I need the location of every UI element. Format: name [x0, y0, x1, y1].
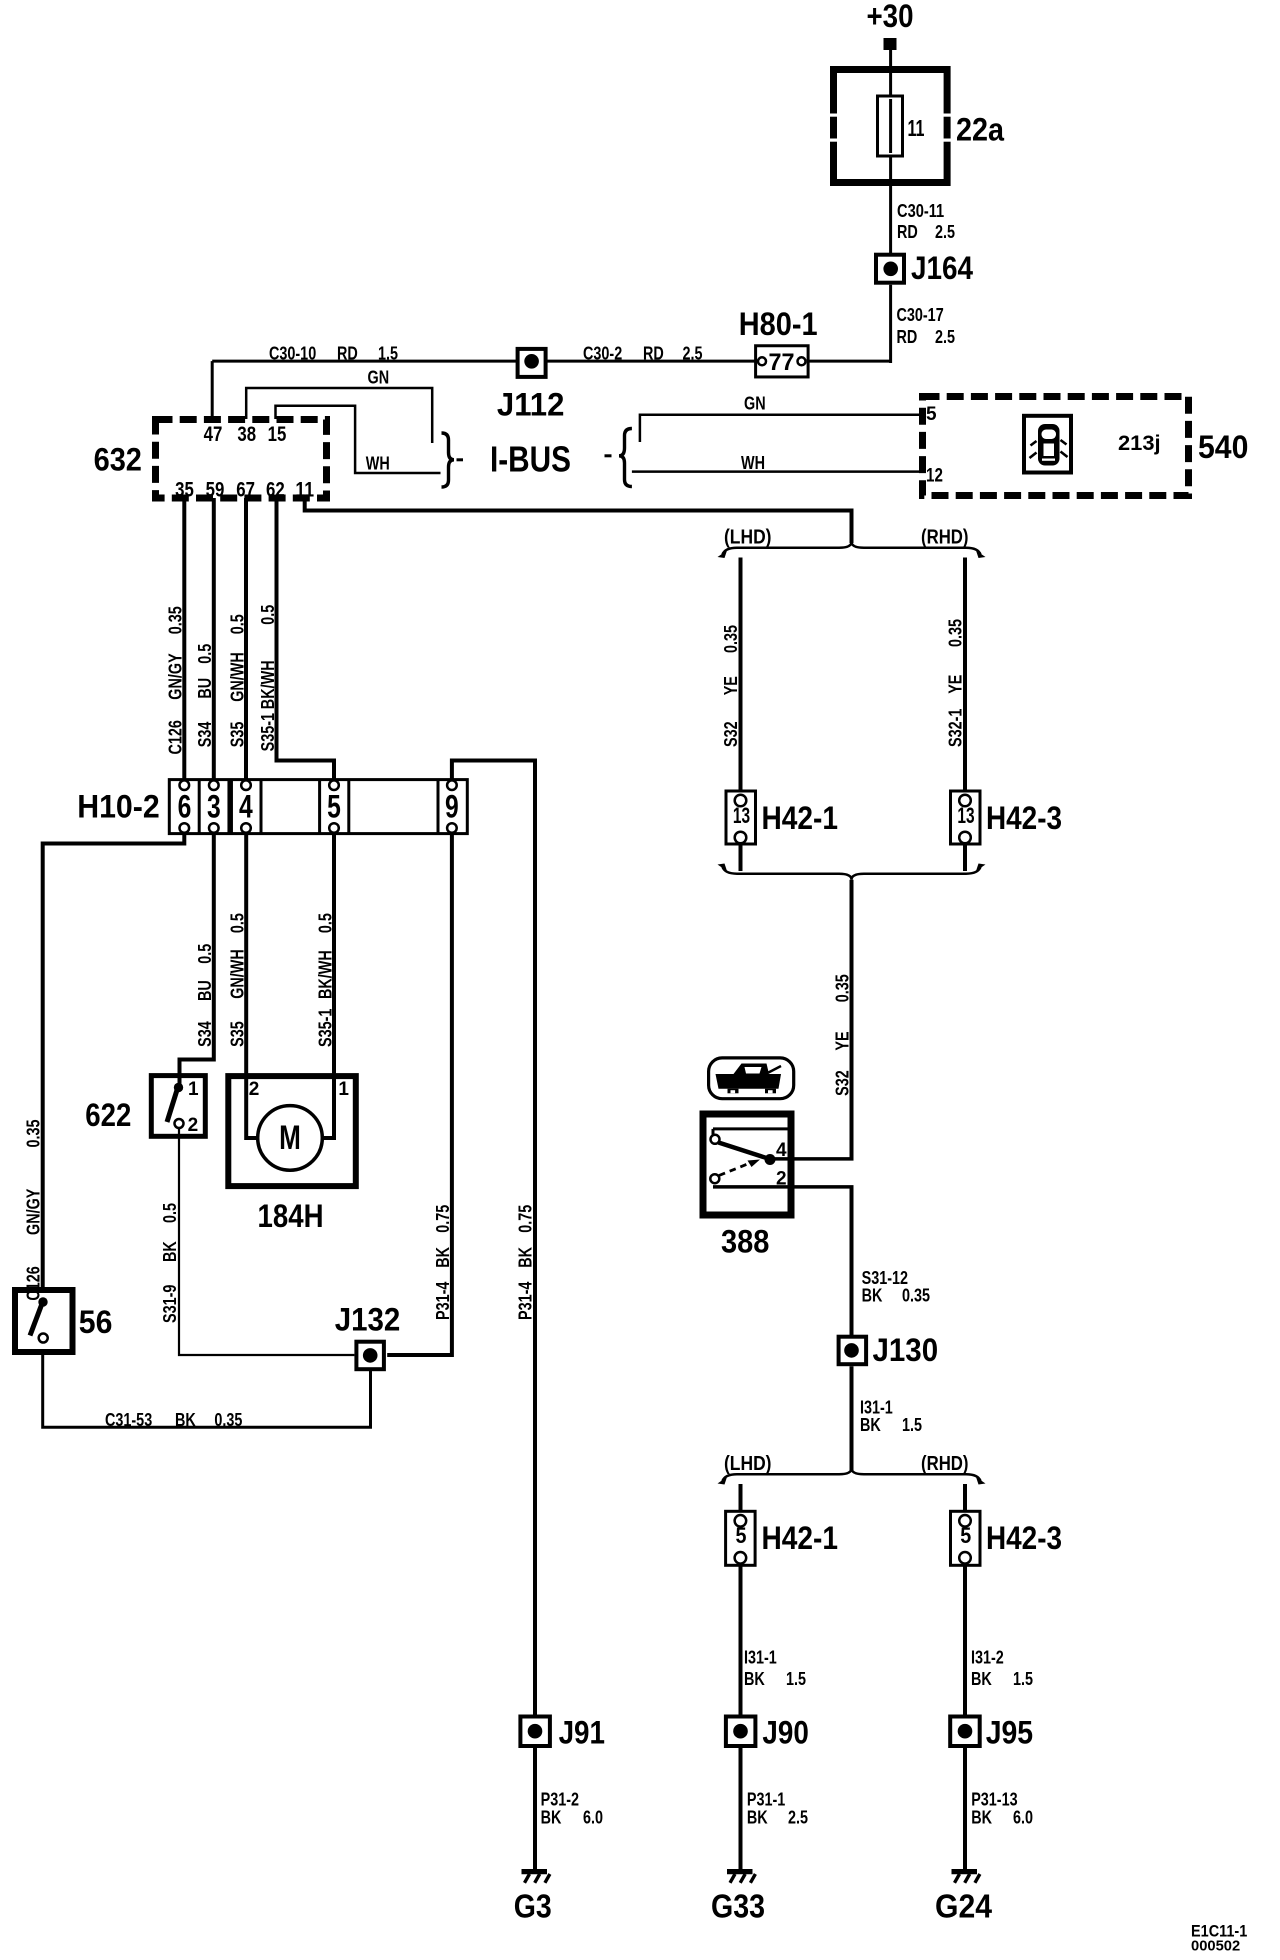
svg-text:9: 9	[445, 789, 459, 825]
svg-text:6.0: 6.0	[1013, 1808, 1033, 1828]
svg-text:I31-2: I31-2	[971, 1648, 1004, 1668]
wire J95 to ground G24	[963, 1748, 967, 1869]
ground symbol G3	[522, 1872, 550, 1883]
svg-text:BK: BK	[541, 1808, 562, 1828]
svg-text:H42-1: H42-1	[762, 1520, 839, 1556]
svg-text:P31-4: P31-4	[516, 1282, 536, 1320]
svg-text:632: 632	[94, 442, 142, 478]
wire RHD to H42-3 pin 13	[963, 558, 967, 793]
junction J91	[520, 1717, 550, 1747]
svg-text:RD: RD	[337, 344, 358, 364]
wire H10-2 pin 5 to motor pin 1	[321, 834, 334, 1138]
svg-text:213j: 213j	[1118, 432, 1161, 455]
svg-text:P31-4: P31-4	[433, 1282, 453, 1320]
switch 388 common dot pin 4	[765, 1154, 776, 1165]
wire label S31-9 BK 0.5	[160, 1203, 180, 1323]
wire H10-2 pin 9 to J91 long run	[452, 761, 535, 1716]
wire pin 47 stub	[211, 361, 214, 419]
svg-text:5: 5	[960, 1523, 971, 1548]
svg-text:C126: C126	[166, 720, 186, 754]
svg-text:6: 6	[178, 789, 192, 825]
wire label C126 GN/GY 0.35 upper	[166, 606, 186, 754]
svg-text:YE: YE	[721, 676, 741, 695]
svg-text:BK: BK	[747, 1808, 768, 1828]
svg-text:12: 12	[926, 466, 943, 487]
svg-text:YE: YE	[833, 1031, 853, 1050]
svg-text:388: 388	[721, 1224, 769, 1260]
svg-text:13: 13	[957, 803, 974, 828]
svg-text:0.35: 0.35	[721, 625, 741, 653]
junction J112	[518, 349, 546, 377]
wire through fuse box	[889, 67, 892, 186]
wire C30-10 / C30-2 horizontal run	[212, 360, 755, 363]
svg-text:BK: BK	[971, 1808, 992, 1828]
switch 388 internal top line	[713, 1129, 788, 1135]
wire label P31-4 BK 0.75 at J91 run	[516, 1205, 536, 1320]
wire label S35 GN/WH 0.5 lower	[227, 913, 247, 1047]
wire LHD to H42-1 pin 5	[739, 1484, 743, 1512]
svg-text:I-BUS: I-BUS	[490, 439, 571, 480]
svg-text:0.5: 0.5	[315, 913, 335, 933]
svg-text:(LHD): (LHD)	[724, 1453, 772, 1475]
svg-text:BK: BK	[160, 1241, 180, 1262]
svg-text:G3: G3	[514, 1888, 552, 1925]
wire label S35-1 BK/WH 0.5 lower	[315, 913, 335, 1047]
svg-text:GN: GN	[744, 394, 766, 414]
svg-text:0.75: 0.75	[516, 1205, 536, 1233]
svg-text:BK/WH: BK/WH	[315, 950, 335, 999]
junction J130	[839, 1337, 867, 1365]
wire below H42-3	[963, 844, 967, 871]
svg-text:G33: G33	[711, 1888, 765, 1925]
switch 56 contact dot	[38, 1297, 47, 1306]
svg-text:2.5: 2.5	[935, 222, 955, 242]
svg-text:0.75: 0.75	[433, 1205, 453, 1233]
svg-text:BK: BK	[971, 1669, 992, 1689]
wire 632 pin 59 to H10-2 pin 3	[212, 498, 216, 780]
wire LHD to H42-1 pin 13	[739, 558, 743, 793]
svg-text:0.5: 0.5	[258, 605, 278, 625]
svg-text:2: 2	[188, 1115, 199, 1136]
svg-text:S31-9: S31-9	[160, 1285, 180, 1323]
svg-text:S32-1: S32-1	[946, 709, 966, 747]
wire label S35 GN/WH 0.5 upper	[227, 614, 247, 747]
svg-text:C31-53: C31-53	[105, 1410, 152, 1430]
svg-text:0.35: 0.35	[946, 619, 966, 647]
switch 622 box	[151, 1076, 205, 1137]
svg-text:BK: BK	[433, 1247, 453, 1268]
connector H80-1 pin 77	[756, 346, 809, 377]
svg-text:GN/WH: GN/WH	[227, 949, 247, 999]
svg-text:2.5: 2.5	[935, 327, 955, 347]
svg-text:5: 5	[736, 1523, 747, 1548]
svg-text:(LHD): (LHD)	[724, 527, 772, 549]
I-BUS left brace	[442, 433, 455, 487]
wire label C31-53 BK 0.35	[105, 1410, 242, 1430]
svg-text:1.5: 1.5	[786, 1669, 806, 1689]
svg-text:BU: BU	[195, 980, 215, 1001]
anti-theft alarm icon 213j	[1024, 416, 1071, 473]
svg-text:H42-3: H42-3	[986, 800, 1062, 836]
switch 622 contact dot pin 1	[174, 1083, 183, 1092]
switch 622 lever	[167, 1090, 177, 1122]
wire WH brace to 540 pin 12	[632, 470, 919, 473]
LHD/RHD split bracket (upper)	[723, 542, 981, 555]
motor 184H box	[228, 1076, 355, 1186]
svg-text:H10-2: H10-2	[77, 789, 160, 825]
svg-text:1.5: 1.5	[378, 344, 398, 364]
svg-text:0.35: 0.35	[24, 1120, 44, 1148]
fuse box 22a (dashed sides)	[829, 70, 953, 183]
wire 56 to J132 (C31-53)	[43, 1354, 371, 1427]
svg-text:3: 3	[207, 789, 221, 825]
switch 388 dashed actuation line	[719, 1163, 750, 1176]
wire label S32 YE 0.35 middle	[833, 974, 853, 1096]
wire label S31-12 BK 0.35	[862, 1268, 930, 1306]
svg-text:BK: BK	[175, 1410, 196, 1430]
wire H10-2 pin 6 to switch 56	[43, 834, 185, 1288]
svg-text:+30: +30	[867, 0, 914, 34]
svg-text:0.5: 0.5	[227, 913, 247, 933]
I-BUS right brace	[605, 454, 612, 457]
svg-text:GN/GY: GN/GY	[24, 1189, 44, 1235]
svg-text:H42-1: H42-1	[762, 800, 839, 836]
svg-text:P31-2: P31-2	[541, 1790, 579, 1810]
hood open icon	[709, 1058, 794, 1099]
switch 388 box	[703, 1114, 791, 1215]
switch 56 box	[15, 1290, 73, 1352]
connector H42-1 pin 5	[726, 1511, 756, 1565]
svg-text:(RHD): (RHD)	[921, 1453, 969, 1475]
wire H10-2 pin 4 to motor pin 2	[246, 834, 259, 1138]
svg-text:H80-1: H80-1	[739, 306, 818, 342]
svg-text:2: 2	[249, 1079, 260, 1100]
wire H42-3 to J95	[963, 1565, 967, 1715]
wire H10-2 pin 3 to switch 622	[180, 834, 214, 1085]
connector H42-1 pin 13	[726, 791, 756, 844]
wire J90 to ground G33	[739, 1748, 743, 1869]
svg-text:6.0: 6.0	[583, 1808, 603, 1828]
svg-text:WH: WH	[366, 454, 390, 474]
switch 388 arrowhead	[748, 1160, 761, 1168]
wire below H42-1	[739, 844, 743, 871]
svg-text:13: 13	[733, 803, 750, 828]
wire label S32-1 YE 0.35 right	[946, 619, 966, 747]
svg-text:1: 1	[338, 1079, 349, 1100]
svg-text:15: 15	[268, 423, 287, 446]
wire WH pin 15 to I-BUS brace	[276, 406, 441, 473]
wire GN pin 38 to I-BUS brace	[246, 388, 432, 443]
svg-text:G24: G24	[935, 1888, 993, 1925]
svg-text:GN/GY: GN/GY	[166, 653, 186, 699]
svg-text:H42-3: H42-3	[986, 1520, 1062, 1556]
svg-text:1.5: 1.5	[902, 1415, 922, 1435]
svg-text:0.5: 0.5	[195, 644, 215, 664]
wire label C30-17 RD 2.5	[897, 305, 956, 347]
wire label C30-2 RD 2.5	[583, 344, 703, 364]
wire label I31-1 BK 1.5 upper	[860, 1398, 922, 1436]
svg-text:J132: J132	[335, 1302, 401, 1338]
connector strip H10-2	[169, 780, 467, 834]
wire label S32 YE 0.35 left	[721, 625, 741, 747]
svg-text:I31-1: I31-1	[744, 1648, 777, 1668]
svg-text:J164: J164	[911, 250, 973, 286]
wire 632 pin 67 to H10-2 pin 4	[244, 498, 248, 780]
switch 388 contact circle lower	[710, 1174, 719, 1183]
wire 622 pin 2 to J132 (S31-9)	[179, 1128, 354, 1355]
svg-text:WH: WH	[741, 453, 765, 473]
LHD/RHD merge bracket (lower)	[723, 867, 981, 880]
svg-text:1.5: 1.5	[1013, 1669, 1033, 1689]
wire label C126 GN/GY 0.35 left column	[24, 1120, 44, 1301]
svg-text:0.35: 0.35	[833, 974, 853, 1002]
junction J90	[726, 1717, 756, 1747]
wire pin 11 bus to LHD/RHD split	[305, 498, 852, 543]
wire H80-1 to J164 drop	[806, 360, 892, 363]
svg-text:56: 56	[79, 1304, 113, 1340]
svg-text:GN/WH: GN/WH	[227, 652, 247, 702]
svg-text:RD: RD	[897, 327, 918, 347]
svg-text:184H: 184H	[258, 1198, 324, 1234]
svg-text:0.5: 0.5	[195, 944, 215, 964]
svg-text:C30-17: C30-17	[897, 305, 944, 325]
svg-text:C126: C126	[24, 1266, 44, 1300]
svg-text:0.35: 0.35	[166, 606, 186, 634]
wire 632 pin 35 to H10-2 pin 6	[182, 498, 186, 780]
svg-text:(RHD): (RHD)	[921, 527, 969, 549]
wire H42-1 to J90	[739, 1565, 743, 1715]
svg-text:BK: BK	[516, 1247, 536, 1268]
svg-text:J90: J90	[762, 1715, 808, 1751]
svg-text:RD: RD	[643, 344, 664, 364]
svg-text:5: 5	[926, 404, 937, 425]
svg-text:540: 540	[1198, 429, 1248, 465]
fuse 11 element	[878, 96, 903, 156]
connector H42-3 pin 5	[951, 1511, 981, 1565]
wire +30 to fuse box 22a	[889, 50, 892, 67]
svg-text:47: 47	[204, 423, 223, 446]
svg-text:M: M	[279, 1119, 301, 1157]
svg-text:S35-1: S35-1	[258, 713, 278, 751]
svg-text:BK: BK	[862, 1286, 883, 1306]
wire label C30-11 RD 2.5	[897, 201, 955, 242]
svg-text:BK: BK	[860, 1415, 881, 1435]
junction J132	[356, 1342, 384, 1370]
svg-text:S32: S32	[721, 721, 741, 747]
ground symbol G24	[952, 1872, 980, 1883]
svg-text:BU: BU	[195, 678, 215, 699]
svg-text:P31-13: P31-13	[971, 1790, 1017, 1810]
wire 388 pin 2 down to J130	[850, 1187, 854, 1336]
svg-text:S35: S35	[227, 722, 247, 748]
svg-text:S35-1: S35-1	[315, 1009, 335, 1047]
svg-text:0.5: 0.5	[160, 1203, 180, 1223]
wire label C30-10 RD 1.5	[269, 344, 398, 364]
svg-text:S34: S34	[195, 722, 215, 748]
svg-text:4: 4	[239, 789, 253, 825]
wire label P31-2 BK 6.0	[541, 1790, 603, 1828]
wire label P31-4 BK 0.75 at J132	[433, 1205, 453, 1320]
wire label I31-1 BK 1.5 at J90	[744, 1648, 806, 1690]
svg-text:S32: S32	[833, 1070, 853, 1096]
connector H42-3 pin 13	[951, 791, 981, 844]
wire merge to switch 388 pin 4	[850, 880, 854, 1159]
wire J91 to ground G3	[533, 1748, 537, 1869]
svg-text:0.35: 0.35	[214, 1410, 242, 1430]
LHD/RHD split bracket (lower section)	[723, 1468, 981, 1481]
wire 632 pin 62 to H10-2 pin 5	[277, 498, 335, 780]
svg-text:RD: RD	[897, 222, 918, 242]
switch 388 contact circle upper	[711, 1135, 720, 1144]
svg-text:2.5: 2.5	[788, 1808, 808, 1828]
svg-text:J112: J112	[497, 387, 565, 423]
svg-text:C30-10: C30-10	[269, 344, 316, 364]
wire label P31-1 BK 2.5	[747, 1790, 808, 1828]
battery terminal +30	[884, 38, 897, 50]
wire fuse box to J164	[889, 186, 892, 253]
switch 56 lever	[30, 1305, 42, 1336]
svg-text:2.5: 2.5	[683, 344, 703, 364]
svg-text:77: 77	[769, 349, 795, 376]
svg-text:P31-1: P31-1	[747, 1790, 785, 1810]
junction J95	[950, 1717, 980, 1747]
ground symbol G33	[727, 1872, 755, 1883]
svg-text:S35: S35	[227, 1021, 247, 1047]
wire label P31-13 BK 6.0	[971, 1790, 1033, 1828]
svg-text:J95: J95	[986, 1715, 1033, 1751]
wire label S34 BU 0.5 lower	[195, 944, 215, 1047]
svg-text:J130: J130	[873, 1332, 939, 1368]
wire pin 4 to bus	[770, 1157, 854, 1161]
svg-text:YE: YE	[946, 675, 966, 694]
svg-text:38: 38	[237, 423, 256, 446]
wire label S34 BU 0.5 upper	[195, 644, 215, 747]
svg-text:0.35: 0.35	[902, 1286, 930, 1306]
wire GN brace to 540 pin 5	[640, 415, 919, 442]
svg-text:BK: BK	[744, 1669, 765, 1689]
svg-text:0.5: 0.5	[227, 614, 247, 634]
svg-text:C30-2: C30-2	[583, 344, 622, 364]
svg-text:1: 1	[188, 1079, 199, 1100]
wire J164 down to corner	[889, 285, 892, 363]
svg-text:22a: 22a	[956, 112, 1004, 148]
svg-text:GN: GN	[368, 368, 390, 388]
wire J130 to lower split	[850, 1366, 854, 1472]
svg-text:622: 622	[85, 1097, 131, 1133]
control module 540 (dashed box)	[923, 397, 1189, 496]
wire label I31-2 BK 1.5 at J95	[971, 1648, 1033, 1690]
svg-text:000502: 000502	[1191, 1938, 1240, 1955]
control module 632 (dashed box)	[156, 420, 327, 499]
switch 622 contact circle pin 2	[175, 1119, 184, 1128]
wire pin 2 out	[713, 1185, 854, 1189]
wire RHD to H42-3 pin 5	[963, 1484, 967, 1512]
wire label S35-1 BK/WH 0.5 upper	[258, 605, 278, 752]
svg-text:5: 5	[327, 789, 341, 825]
switch 56 contact circle	[39, 1334, 48, 1343]
motor M circle	[258, 1106, 323, 1171]
svg-text:BK/WH: BK/WH	[258, 660, 278, 709]
junction J164	[876, 255, 904, 283]
svg-text:C30-11: C30-11	[897, 201, 944, 221]
svg-text:11: 11	[908, 115, 925, 141]
switch 388 lever	[719, 1143, 769, 1159]
svg-text:J91: J91	[559, 1715, 605, 1751]
wire H10-2 pin 9 to J132	[387, 834, 452, 1355]
svg-text:S34: S34	[195, 1021, 215, 1047]
